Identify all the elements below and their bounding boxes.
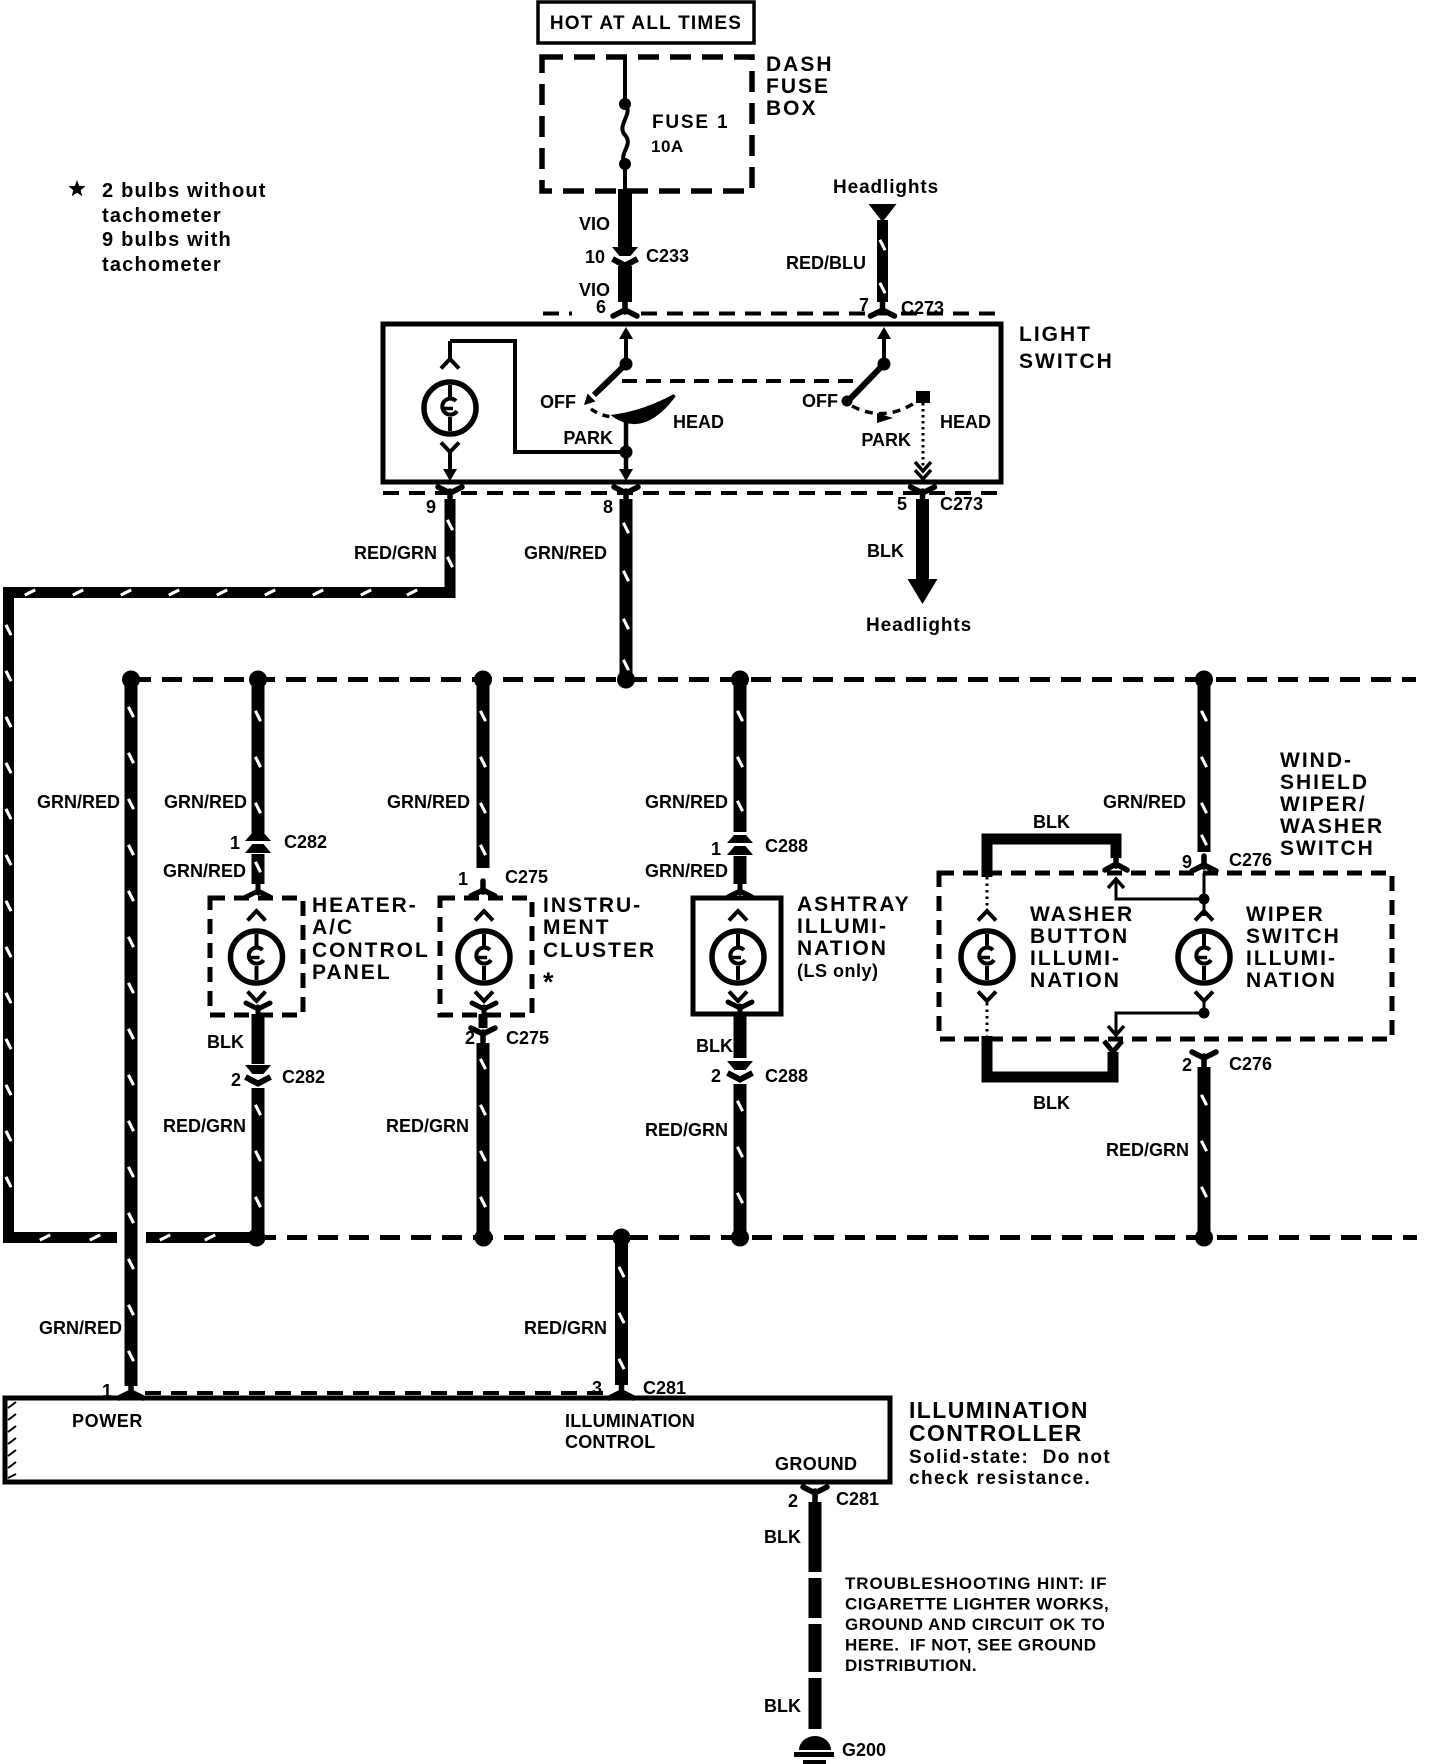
svg-text:ILLUMI-: ILLUMI- xyxy=(1246,947,1337,970)
svg-text:G200: G200 xyxy=(842,1740,886,1760)
wiper switch internal feed: up arrow and link to pin 9 wire xyxy=(1108,873,1210,916)
svg-text:FUSE 1: FUSE 1 xyxy=(652,112,729,133)
svg-text:HEATER-: HEATER- xyxy=(312,894,418,917)
wiper switch illumination label xyxy=(1246,903,1341,992)
washer button illumination label xyxy=(1030,903,1134,992)
svg-text:1: 1 xyxy=(458,869,468,889)
svg-text:CONTROL: CONTROL xyxy=(565,1432,655,1452)
wire GRN/RED bus to C288 xyxy=(645,684,743,832)
return bus node C2 xyxy=(475,1229,493,1247)
PARK label switch 2 xyxy=(861,430,911,450)
switch 2 lever (to OFF) xyxy=(842,364,885,407)
svg-text:2: 2 xyxy=(465,1028,475,1048)
svg-text:SWITCH: SWITCH xyxy=(1246,925,1341,948)
svg-text:RED/GRN: RED/GRN xyxy=(386,1116,469,1136)
svg-text:1: 1 xyxy=(230,833,240,853)
svg-text:6: 6 xyxy=(596,297,606,317)
svg-text:GRN/RED: GRN/RED xyxy=(645,792,728,812)
ground G200 xyxy=(794,1736,886,1764)
svg-text:OFF: OFF xyxy=(540,392,576,412)
svg-text:BUTTON: BUTTON xyxy=(1030,925,1129,948)
wire RED/GRN C282 to return bus xyxy=(163,1088,261,1233)
switch 2 pivot node xyxy=(878,358,891,371)
fuse F1 terminal node top xyxy=(619,98,631,110)
wire fuse to box edge xyxy=(623,164,627,191)
HEAD contact crescent switch 1 xyxy=(615,396,675,423)
wire GRN/RED C282 to heater panel xyxy=(163,854,261,884)
svg-text:BLK: BLK xyxy=(1033,812,1070,832)
svg-text:GROUND AND CIRCUIT OK TO: GROUND AND CIRCUIT OK TO xyxy=(845,1615,1105,1634)
svg-text:GRN/RED: GRN/RED xyxy=(645,861,728,881)
svg-text:(LS only): (LS only) xyxy=(797,961,879,981)
fuse FUSE 1 10A element xyxy=(622,104,729,164)
light switch pin 5, connector C273 xyxy=(897,487,983,514)
svg-text:C288: C288 xyxy=(765,836,808,856)
connector C288 pin 2 xyxy=(711,1061,808,1086)
light switch internal lamp xyxy=(424,341,476,481)
troubleshooting hint text xyxy=(845,1574,1109,1675)
switch 2 entry arrow from pin 7 xyxy=(877,327,891,362)
wire RED/GRN wiper switch to return bus xyxy=(1106,1067,1207,1231)
wire GRN/RED bus to wiper switch pin 9 xyxy=(1103,684,1207,852)
svg-text:C276: C276 xyxy=(1229,1054,1272,1074)
svg-text:CIGARETTE LIGHTER WORKS,: CIGARETTE LIGHTER WORKS, xyxy=(845,1595,1109,1614)
svg-text:PANEL: PANEL xyxy=(312,961,392,984)
wire VIO from C233 to light switch pin 6 xyxy=(579,266,625,302)
wire GRN/RED bus to illumination controller pin 1 xyxy=(37,684,134,1386)
svg-text:SHIELD: SHIELD xyxy=(1280,771,1369,794)
wire RED/GRN from pin 9 (long harness run down left side) xyxy=(6,499,453,1240)
illumination controller pin 1 xyxy=(102,1381,143,1401)
svg-text:C276: C276 xyxy=(1229,850,1272,870)
wire from hot feed into fuse xyxy=(623,57,627,102)
svg-text:*: * xyxy=(543,967,555,997)
svg-text:C288: C288 xyxy=(765,1066,808,1086)
HEAD label switch 2 xyxy=(940,412,991,432)
ashtray illumination bulb xyxy=(712,911,764,1001)
illumination controller pin 3, connector C281 xyxy=(592,1378,686,1398)
illumination controller pin 2, connector C281 xyxy=(788,1487,879,1511)
bus junction node D xyxy=(617,671,635,689)
svg-text:GROUND: GROUND xyxy=(775,1454,857,1474)
svg-text:BLK: BLK xyxy=(696,1036,733,1056)
svg-text:9 bulbs with: 9 bulbs with xyxy=(102,229,232,251)
svg-text:HEAD: HEAD xyxy=(940,412,991,432)
wire BLK jumper (bottom) washer to wiper xyxy=(987,1036,1122,1113)
svg-text:FUSE: FUSE xyxy=(766,75,830,98)
svg-text:tachometer: tachometer xyxy=(102,254,222,276)
svg-text:ASHTRAY: ASHTRAY xyxy=(797,893,911,916)
svg-text:HOT AT ALL TIMES: HOT AT ALL TIMES xyxy=(550,13,742,34)
svg-text:BLK: BLK xyxy=(867,541,904,561)
svg-text:Headlights: Headlights xyxy=(866,615,972,636)
light switch box xyxy=(383,324,1001,482)
switch 1 output wire to pin 8 xyxy=(619,417,633,481)
connector C233 pin 10 xyxy=(585,246,689,267)
wire BLK controller to ground (dashed trouble segments) xyxy=(764,1502,815,1729)
tachometer note with star xyxy=(68,180,266,276)
light switch label xyxy=(1019,323,1114,373)
switch 1 pivot node xyxy=(620,358,633,371)
heater panel connector pin xyxy=(246,884,270,897)
svg-text:INSTRU-: INSTRU- xyxy=(543,894,642,917)
Headlights source label (top right) xyxy=(833,177,939,198)
switch 2 HEAD output dotted wire to pin 5 xyxy=(915,403,931,479)
svg-text:GRN/RED: GRN/RED xyxy=(524,543,607,563)
svg-text:PARK: PARK xyxy=(563,428,613,448)
light switch pin 7, connector C273 xyxy=(859,295,944,318)
svg-text:SWITCH: SWITCH xyxy=(1280,837,1375,860)
svg-text:C281: C281 xyxy=(643,1378,686,1398)
svg-text:BLK: BLK xyxy=(764,1527,801,1547)
svg-text:NATION: NATION xyxy=(1030,969,1121,992)
svg-text:tachometer: tachometer xyxy=(102,205,222,227)
return bus node E2 xyxy=(731,1229,749,1247)
svg-text:2: 2 xyxy=(711,1066,721,1086)
light switch pin 6 xyxy=(596,297,637,317)
svg-text:HERE. IF NOT, SEE GROUND: HERE. IF NOT, SEE GROUND xyxy=(845,1636,1096,1655)
bus junction node F xyxy=(1195,671,1213,689)
svg-text:GRN/RED: GRN/RED xyxy=(1103,792,1186,812)
svg-text:BOX: BOX xyxy=(766,97,818,120)
washer button illumination bulb xyxy=(961,877,1013,1037)
wire RED/GRN cluster to return bus xyxy=(386,1043,486,1233)
wire BLK ashtray to C288 pin 2 xyxy=(696,1013,740,1058)
light switch pin 9 xyxy=(426,487,462,517)
svg-text:9: 9 xyxy=(426,497,436,517)
bus junction node A xyxy=(122,671,140,689)
svg-text:check resistance.: check resistance. xyxy=(909,1468,1091,1489)
svg-text:LIGHT: LIGHT xyxy=(1019,323,1092,346)
heater illumination bulb xyxy=(231,911,283,1001)
arrow from headlights circuit xyxy=(869,204,897,222)
HEAD label switch 1 xyxy=(673,412,724,432)
wire BLK heater to C282 pin 2 xyxy=(207,1014,258,1064)
illumination controller box xyxy=(5,1398,890,1482)
wire GRN/RED from pin 8 down to illumination bus xyxy=(524,499,629,676)
connector C288 pin 1 xyxy=(711,835,808,859)
svg-text:8: 8 xyxy=(603,497,613,517)
svg-text:Headlights: Headlights xyxy=(833,177,939,198)
svg-text:RED/GRN: RED/GRN xyxy=(524,1318,607,1338)
ganged switch dashed link xyxy=(622,379,853,383)
wire lamp feed from park node xyxy=(450,341,620,452)
wire GRN/RED C288 to ashtray lamp xyxy=(645,856,740,884)
power feed label box "HOT AT ALL TIMES" xyxy=(538,2,754,43)
wire RED/GRN C288 to return bus xyxy=(645,1084,743,1233)
arrow to headlights (bottom) xyxy=(908,579,938,604)
svg-text:PARK: PARK xyxy=(861,430,911,450)
svg-text:5: 5 xyxy=(897,494,907,514)
svg-text:RED/GRN: RED/GRN xyxy=(645,1120,728,1140)
dashed travel arc switch 2 with PARK pointer xyxy=(852,402,916,423)
svg-text:BLK: BLK xyxy=(207,1032,244,1052)
svg-text:2: 2 xyxy=(1182,1055,1192,1075)
svg-text:BLK: BLK xyxy=(764,1696,801,1716)
HEAD contact square switch 2 xyxy=(916,391,930,403)
instrument cluster label xyxy=(543,894,656,997)
Headlights destination label xyxy=(866,615,972,636)
return bus node G2 xyxy=(613,1229,631,1247)
GROUND pin label xyxy=(775,1454,857,1474)
svg-text:10: 10 xyxy=(585,247,605,267)
svg-text:RED/BLU: RED/BLU xyxy=(786,253,866,273)
svg-text:HEAD: HEAD xyxy=(673,412,724,432)
svg-text:Solid-state: Do not: Solid-state: Do not xyxy=(909,1447,1111,1468)
svg-text:A/C: A/C xyxy=(312,916,354,939)
wire GRN/RED bus to cluster pin 1 xyxy=(387,684,486,868)
connector face dashed line at light switch top xyxy=(543,312,999,316)
svg-text:GRN/RED: GRN/RED xyxy=(163,861,246,881)
wiper switch internal return: link and down arrow xyxy=(1108,1001,1210,1035)
bus junction node C xyxy=(474,671,492,689)
connector face dashed line at controller top xyxy=(145,1391,608,1395)
svg-text:ILLUMI-: ILLUMI- xyxy=(1030,947,1121,970)
svg-text:TROUBLESHOOTING HINT: IF: TROUBLESHOOTING HINT: IF xyxy=(845,1574,1107,1593)
svg-text:WIND-: WIND- xyxy=(1280,749,1353,772)
connector C275 pin 2 xyxy=(465,1014,549,1048)
svg-text:GRN/RED: GRN/RED xyxy=(39,1318,122,1338)
svg-text:DASH: DASH xyxy=(766,53,834,76)
svg-text:ILLUMINATION: ILLUMINATION xyxy=(565,1411,695,1431)
wire BLK jumper (top) wiper to washer xyxy=(987,812,1116,877)
connector C282 pin 2 xyxy=(231,1065,325,1090)
light switch pin 8 xyxy=(603,487,638,517)
windshield wiper/washer switch box (dashed) xyxy=(939,873,1392,1039)
svg-text:GRN/RED: GRN/RED xyxy=(387,792,470,812)
svg-text:RED/GRN: RED/GRN xyxy=(354,543,437,563)
wiper switch illumination bulb xyxy=(1178,911,1230,1001)
wiper switch pin 9 connector C276 xyxy=(1182,850,1272,872)
heater panel label xyxy=(312,894,430,984)
svg-text:MENT: MENT xyxy=(543,916,611,939)
svg-text:OFF: OFF xyxy=(802,391,838,411)
svg-text:9: 9 xyxy=(1182,852,1192,872)
svg-text:C275: C275 xyxy=(506,1028,549,1048)
svg-text:GRN/RED: GRN/RED xyxy=(37,792,120,812)
wire GRN/RED bus to C282 xyxy=(164,684,261,833)
ashtray illumination box xyxy=(693,898,781,1014)
illumination controller title + note xyxy=(909,1397,1111,1489)
svg-text:C282: C282 xyxy=(284,832,327,852)
svg-text:C233: C233 xyxy=(646,246,689,266)
cluster pin 1 connector C275 xyxy=(458,867,548,896)
svg-text:WASHER: WASHER xyxy=(1030,903,1134,926)
OFF position label switch 2 xyxy=(802,391,838,411)
return bus node F2 xyxy=(1195,1229,1213,1247)
svg-text:C275: C275 xyxy=(505,867,548,887)
connector C282 pin 1 xyxy=(230,832,327,853)
instrument cluster box (dashed) xyxy=(440,898,532,1015)
dashed travel arc switch 1 xyxy=(591,409,616,417)
svg-text:VIO: VIO xyxy=(579,214,610,234)
svg-text:WASHER: WASHER xyxy=(1280,815,1384,838)
dash fuse box (dashed enclosure) xyxy=(542,57,752,191)
svg-text:SWITCH: SWITCH xyxy=(1019,350,1114,373)
switch 1 lever (to OFF) xyxy=(584,364,626,405)
svg-text:C273: C273 xyxy=(940,494,983,514)
svg-text:10A: 10A xyxy=(651,137,684,156)
OFF position label switch 1 xyxy=(540,392,576,412)
bus junction node B xyxy=(249,671,267,689)
svg-text:POWER: POWER xyxy=(72,1411,143,1431)
dash fuse box label xyxy=(766,53,834,120)
fuse F1 terminal node bottom xyxy=(619,158,631,170)
BLK jumper entry fork into switch xyxy=(1105,858,1127,870)
ILLUMINATION CONTROL pin label xyxy=(565,1411,695,1452)
heater-A/C control panel box (dashed) xyxy=(210,898,303,1015)
cluster bottom pin xyxy=(472,1003,496,1016)
svg-text:2: 2 xyxy=(788,1491,798,1511)
ashtray label xyxy=(797,893,911,981)
svg-text:NATION: NATION xyxy=(797,937,888,960)
svg-text:WIPER: WIPER xyxy=(1246,903,1325,926)
heater panel bottom pin xyxy=(246,1003,270,1016)
wire VIO from fuse box to connector C233 xyxy=(579,189,625,247)
svg-text:7: 7 xyxy=(859,295,869,315)
svg-text:WIPER/: WIPER/ xyxy=(1280,793,1367,816)
wire RED/GRN return bus to controller pin 3 xyxy=(524,1242,624,1385)
svg-text:CONTROL: CONTROL xyxy=(312,939,430,962)
svg-text:BLK: BLK xyxy=(1033,1093,1070,1113)
svg-text:GRN/RED: GRN/RED xyxy=(164,792,247,812)
svg-text:DISTRIBUTION.: DISTRIBUTION. xyxy=(845,1656,977,1675)
svg-text:2: 2 xyxy=(231,1070,241,1090)
svg-text:RED/GRN: RED/GRN xyxy=(163,1116,246,1136)
svg-text:NATION: NATION xyxy=(1246,969,1337,992)
svg-text:CONTROLLER: CONTROLLER xyxy=(909,1420,1083,1446)
return bus node B2 xyxy=(248,1229,266,1247)
svg-text:C273: C273 xyxy=(901,298,944,318)
wire RED/BLU to light switch pin 7 xyxy=(786,220,885,302)
ashtray bottom pin xyxy=(728,1002,752,1015)
svg-text:1: 1 xyxy=(711,839,721,859)
connector face dashed line below light switch xyxy=(383,491,999,495)
svg-text:C281: C281 xyxy=(836,1489,879,1509)
cluster illumination bulb xyxy=(458,911,510,1001)
windshield wiper/washer switch label xyxy=(1280,749,1384,860)
svg-text:ILLUMI-: ILLUMI- xyxy=(797,915,888,938)
svg-text:CLUSTER: CLUSTER xyxy=(543,939,656,962)
POWER pin label xyxy=(72,1411,143,1431)
illumination return bus (dashed) xyxy=(256,1235,1417,1240)
switch 1 entry arrow from pin 6 xyxy=(619,327,633,362)
illumination feed bus (dashed) xyxy=(131,677,1416,682)
ashtray top pin xyxy=(728,884,752,897)
wire BLK from pin 5 to headlights xyxy=(867,499,923,580)
wiper switch pin 2 connector C276 xyxy=(1182,1052,1272,1075)
bus junction node E xyxy=(731,671,749,689)
svg-text:2 bulbs without: 2 bulbs without xyxy=(102,180,267,202)
PARK label switch 1 xyxy=(563,428,613,448)
svg-text:RED/GRN: RED/GRN xyxy=(1106,1140,1189,1160)
svg-text:C282: C282 xyxy=(282,1067,325,1087)
